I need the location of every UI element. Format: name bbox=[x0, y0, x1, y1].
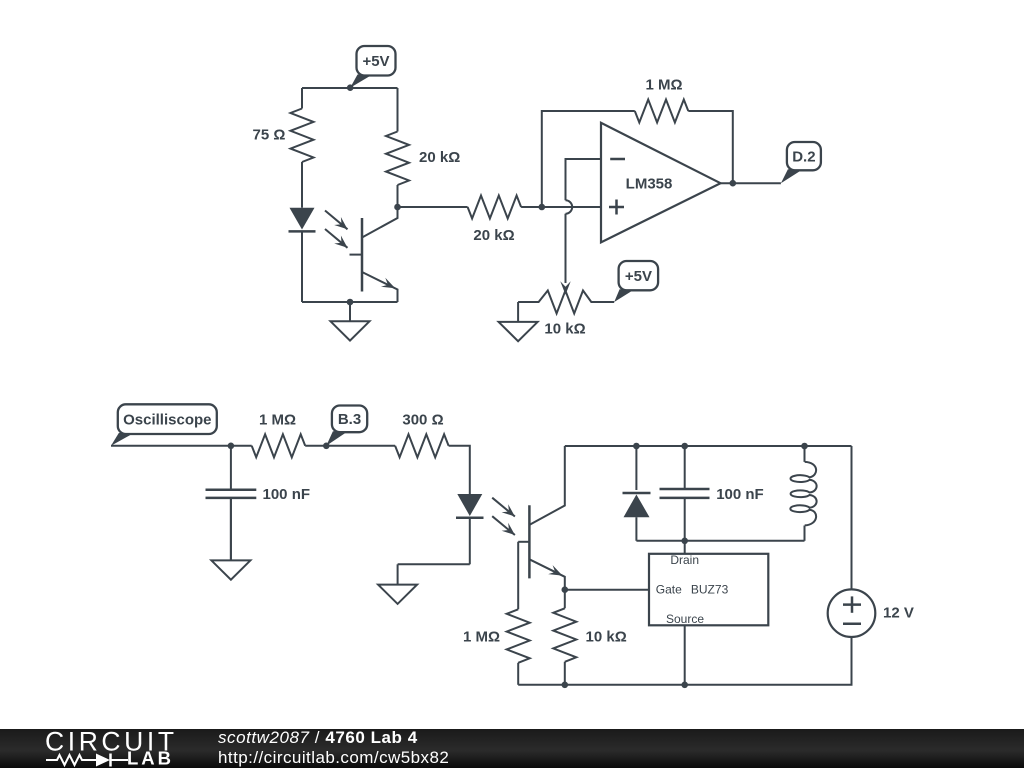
wire top rail 12V side bbox=[565, 445, 852, 447]
resistor R7 300 Ohm bbox=[395, 434, 449, 457]
CircuitLab logo resistor-diode glyph bbox=[46, 755, 96, 765]
op-amp minus symbol bbox=[610, 158, 625, 161]
wire feedback right to output bbox=[688, 111, 733, 183]
ground (potentiometer) bbox=[517, 302, 519, 322]
node junction dot +5V rail bbox=[347, 84, 354, 91]
svg-text:scottw2087 / 4760 Lab 4: scottw2087 / 4760 Lab 4 bbox=[218, 728, 418, 747]
node dot top rail (diode) bbox=[633, 443, 640, 450]
wire 12V top branch bbox=[851, 446, 853, 589]
node dot bottom rail (source) bbox=[681, 682, 688, 689]
power flag +5V (potentiometer) bbox=[614, 289, 634, 302]
node dot bottom rail (10k) bbox=[562, 682, 569, 689]
svg-text:LAB: LAB bbox=[127, 748, 174, 768]
op-amp plus symbol bbox=[609, 206, 624, 209]
net flag B.3 bbox=[326, 431, 348, 446]
ground (capacitor C1) bbox=[230, 498, 232, 561]
svg-text:http://circuitlab.com/cw5bx82: http://circuitlab.com/cw5bx82 bbox=[218, 748, 449, 767]
node gate junction bbox=[562, 586, 569, 593]
power flag +5V (top) bbox=[350, 75, 372, 88]
node junction dot bottom bbox=[347, 299, 354, 306]
wire R3 to op-amp + node bbox=[521, 206, 601, 208]
capacitor C2 100 nF bbox=[684, 446, 686, 488]
resistor R2 20 kOhm (vertical) bbox=[386, 132, 409, 186]
ground (LED2) bbox=[397, 564, 399, 584]
wire bottom of snubber group bbox=[636, 540, 804, 542]
LED of optocoupler U3 bbox=[457, 494, 482, 516]
wire bottom of sensor stage bbox=[302, 301, 398, 303]
resistor R8 1 MOhm (vertical) bbox=[507, 609, 530, 663]
node + input junction bbox=[539, 204, 546, 211]
wire top rail of sensor stage bbox=[302, 87, 398, 89]
voltage source V1 12 V bbox=[828, 589, 876, 637]
potentiometer R5 10 kOhm bbox=[518, 291, 614, 314]
wire hop over + input bbox=[566, 200, 573, 213]
node dot top rail (cap) bbox=[681, 443, 688, 450]
wire base to 1M resistor bbox=[517, 542, 519, 610]
resistor R4 1 MOhm (feedback) bbox=[635, 100, 689, 123]
op-amp U1 LM358 triangle bbox=[601, 123, 721, 243]
wire R6 to B.3 node bbox=[305, 445, 395, 447]
node junction dot scope bbox=[228, 443, 235, 450]
node output junction bbox=[730, 180, 737, 187]
wire gate to BUZ73 bbox=[565, 589, 649, 591]
resistor R3 20 kOhm (horizontal) bbox=[468, 196, 521, 219]
net flag Oscilliscope bbox=[111, 433, 134, 446]
node dot top rail (inductor) bbox=[801, 443, 808, 450]
wire left branch down bbox=[301, 88, 303, 109]
diode D3 flyback bbox=[635, 446, 637, 490]
LED of optocoupler U2 bbox=[290, 208, 315, 230]
node collector junction bbox=[394, 204, 401, 211]
inductor L1 bbox=[804, 446, 806, 462]
wire R7 to LED2 bbox=[449, 446, 470, 494]
resistor R6 1 MOhm (horizontal) bbox=[252, 434, 306, 457]
transistor Q1 BUZ73 box bbox=[649, 554, 768, 626]
wire right branch to 20k resistor bbox=[397, 88, 399, 132]
net flag D.2 bbox=[781, 169, 803, 183]
light arrows of optocoupler U2 bbox=[325, 211, 348, 230]
light arrows of optocoupler U3 bbox=[492, 498, 515, 517]
node drain junction bbox=[681, 538, 688, 545]
wire LED2 to ground bbox=[398, 563, 470, 565]
wire down to potentiometer wiper bbox=[565, 214, 567, 283]
wire 12V bottom branch and bottom rail bbox=[518, 637, 851, 685]
node junction dot B.3 bbox=[323, 443, 330, 450]
resistor R9 10 kOhm (vertical) bbox=[564, 590, 566, 609]
footer bar bbox=[0, 729, 1024, 768]
wire inverting input bbox=[566, 159, 602, 200]
capacitor C1 100 nF bbox=[230, 446, 232, 489]
wire output bbox=[721, 182, 781, 184]
wire drain pin bbox=[684, 541, 686, 554]
phototransistor of optocoupler U3 bbox=[528, 505, 531, 578]
wire source pin bbox=[684, 625, 686, 685]
phototransistor of optocoupler U2 bbox=[361, 218, 364, 292]
ground (sensor stage) bbox=[349, 302, 351, 321]
wire scope node bbox=[111, 445, 252, 447]
resistor R1 75 Ohm bbox=[291, 109, 314, 163]
wire feedback left vertical bbox=[542, 111, 635, 207]
wire collector node to R3 bbox=[398, 206, 468, 208]
